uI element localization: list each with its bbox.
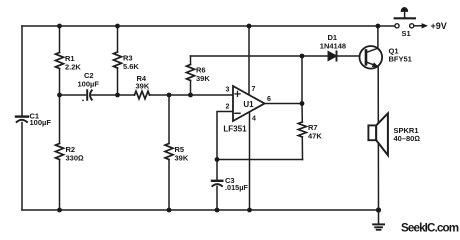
node R1 top [57, 24, 62, 29]
capacitor C3 [212, 160, 222, 211]
svg-text:39K: 39K [175, 153, 189, 162]
node R1 bottom [57, 93, 62, 98]
label U1 [243, 100, 254, 109]
wire mid rail C2 to R4 [92, 94, 135, 96]
svg-text:330Ω: 330Ω [66, 153, 85, 162]
wire inverting lower rail [217, 159, 303, 161]
resistor R5 [165, 95, 173, 210]
node R3 top [115, 24, 120, 29]
svg-text:LF351: LF351 [223, 125, 247, 134]
node R5 bottom [167, 208, 172, 213]
wire feedback rail [191, 55, 303, 57]
wire pin2 bend [217, 112, 233, 160]
svg-text:.015µF: .015µF [225, 183, 248, 192]
svg-text:+9V: +9V [431, 21, 447, 31]
svg-text:7: 7 [252, 86, 256, 93]
node C3 bottom [215, 208, 220, 213]
label SPKR1 [394, 126, 421, 143]
node pin7 top [247, 24, 252, 29]
wire mid rail R4 to opamp [150, 94, 234, 96]
op-amp minus input mark [235, 112, 240, 114]
svg-text:SeekIC.com: SeekIC.com [401, 221, 459, 234]
wire top rail [22, 25, 395, 27]
wire bottom rail [22, 209, 379, 211]
node Q1 collector top [376, 24, 381, 29]
label D1 [320, 33, 346, 51]
label C2 [78, 71, 100, 89]
wire to +9V with arrow [414, 23, 428, 28]
wire D1 anode [302, 55, 328, 57]
svg-text:2: 2 [226, 104, 230, 111]
speaker SPKR1 [368, 113, 388, 155]
ground [373, 210, 384, 230]
node pin2 C3 [215, 157, 220, 162]
svg-text:47K: 47K [308, 132, 322, 141]
label U1 pins [226, 86, 272, 122]
node D1 anode [300, 54, 305, 59]
label R2 [66, 145, 85, 162]
wire mid rail left [60, 94, 86, 96]
wire pin4 to bottom rail [249, 110, 251, 210]
resistor R7 [298, 104, 306, 160]
transistor Q1 [360, 46, 383, 69]
node R4 R5 [167, 93, 172, 98]
node R2 bottom [57, 208, 62, 213]
op-amp plus input mark [235, 91, 240, 96]
wire left rail lower [21, 123, 23, 211]
label R6 [196, 66, 210, 83]
wire output node to feedback [301, 56, 303, 104]
resistor R2 [56, 95, 64, 210]
label R5 [175, 145, 189, 162]
label R3 [123, 54, 139, 71]
switch S1 [395, 7, 415, 28]
label C1 [30, 111, 52, 127]
svg-text:2.2K: 2.2K [65, 63, 81, 72]
resistor R1 [56, 26, 64, 95]
label Q1 [389, 47, 412, 64]
svg-text:39K: 39K [196, 74, 210, 83]
resistor R3 [114, 26, 122, 95]
capacitor C2 [82, 90, 92, 101]
capacitor C1 [16, 117, 28, 122]
svg-text:1N4148: 1N4148 [320, 42, 346, 51]
node pin4 bottom [247, 208, 252, 213]
svg-text:U1: U1 [243, 100, 254, 109]
svg-text:3: 3 [226, 87, 230, 94]
wire pin7 to top rail [248, 26, 250, 95]
svg-text:100µF: 100µF [78, 80, 100, 89]
op-amp U1 [233, 86, 265, 121]
wire Q1 emitter to ground rail [377, 67, 379, 211]
svg-text:S1: S1 [402, 29, 411, 38]
node ground [376, 207, 381, 212]
node output [300, 101, 305, 106]
node R3 bottom [115, 93, 120, 98]
svg-text:5.6K: 5.6K [123, 62, 139, 71]
diode D1 [328, 51, 336, 60]
label C3 [225, 176, 248, 192]
label R4 [136, 74, 150, 90]
svg-text:4: 4 [252, 116, 256, 123]
label LF351 [223, 125, 247, 134]
svg-text:BFY51: BFY51 [389, 54, 412, 63]
node R6 bottom [188, 93, 193, 98]
label S1 [402, 29, 411, 38]
wire left rail upper [21, 26, 23, 116]
svg-text:39K: 39K [136, 81, 150, 90]
svg-text:40–80Ω: 40–80Ω [394, 134, 421, 143]
label R7 [308, 123, 322, 140]
wire Q1 collector to top rail [377, 26, 379, 48]
label R1 [65, 54, 81, 71]
svg-text:6: 6 [267, 96, 271, 103]
wire D1 cathode to Q1 base [338, 55, 365, 57]
resistor R6 [187, 56, 195, 95]
label +9V [431, 21, 447, 31]
svg-text:100µF: 100µF [30, 118, 52, 127]
resistor R4 [135, 91, 150, 99]
wire output [265, 103, 303, 105]
